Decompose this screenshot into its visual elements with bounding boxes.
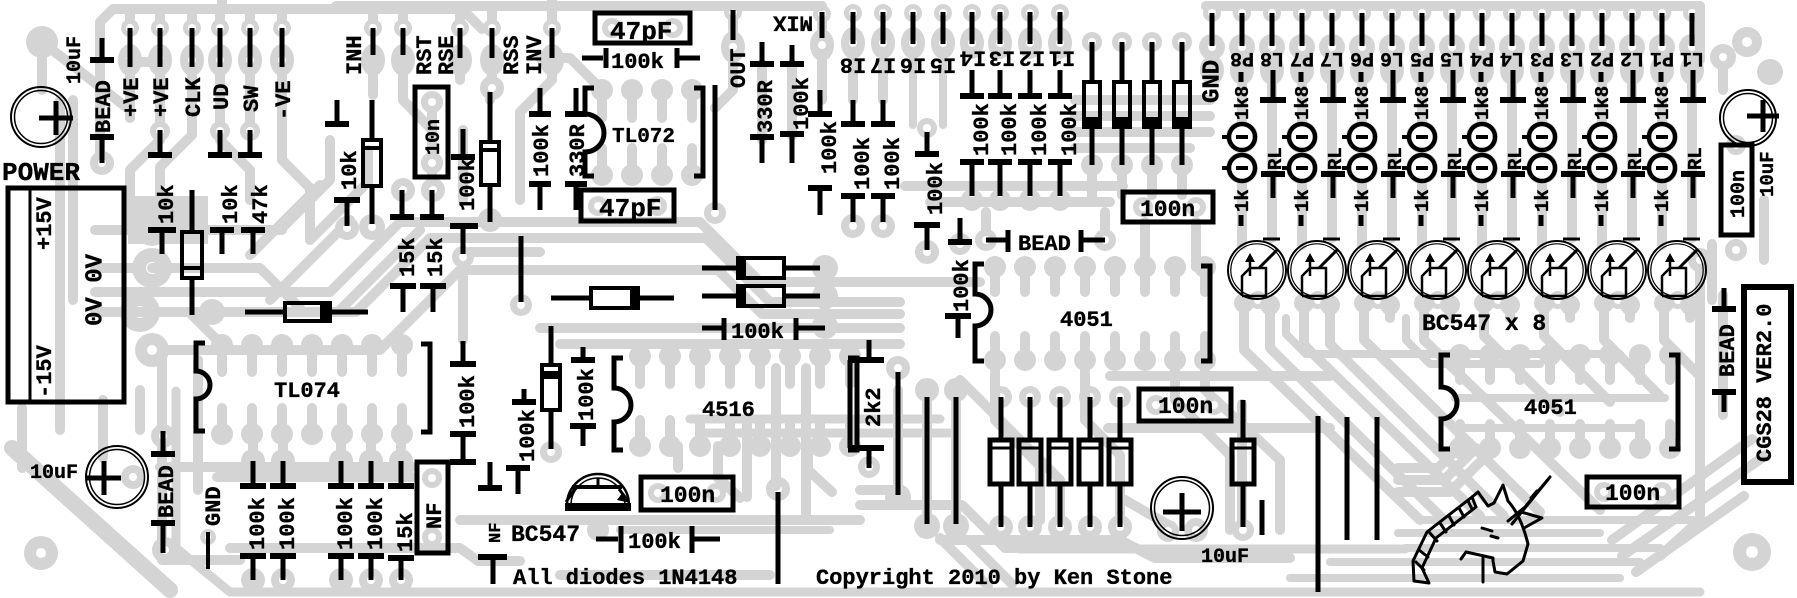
wire tick below 1k ch4	[1479, 215, 1484, 226]
svg-text:1k: 1k	[1232, 189, 1254, 212]
svg-text:BEAD: BEAD	[155, 465, 180, 518]
wire (copper trace)	[540, 323, 900, 333]
wire (copper trace)	[695, 420, 705, 446]
wire (copper trace)	[1604, 318, 1660, 396]
wire (copper trace)	[337, 345, 347, 372]
node pad	[809, 435, 831, 457]
node pad	[1533, 4, 1551, 22]
node pad	[329, 449, 353, 473]
diode D (vertical, center)	[549, 326, 554, 365]
wire (copper trace)	[560, 570, 770, 580]
wire stub x490	[488, 462, 493, 486]
node pad	[1026, 39, 1034, 47]
node pad	[879, 39, 887, 47]
wire (copper trace)	[1050, 267, 1060, 292]
node pad	[1259, 34, 1285, 60]
wire (copper trace)	[1545, 424, 1555, 448]
svg-text:4516: 4516	[702, 398, 755, 423]
svg-text:NF: NF	[487, 523, 506, 543]
svg-text:L6: L6	[1380, 46, 1404, 69]
svg-text:P6: P6	[1350, 46, 1374, 69]
node pad	[148, 44, 172, 76]
node pad	[1134, 349, 1156, 371]
svg-text:TL074: TL074	[274, 379, 340, 404]
svg-text:RSS: RSS	[500, 35, 525, 75]
svg-text:1k8: 1k8	[1232, 86, 1254, 120]
wire (copper trace)	[68, 100, 78, 300]
node pad	[1683, 4, 1701, 22]
node pad	[1164, 349, 1186, 371]
node LED pad B ch7	[1289, 155, 1315, 181]
node pad	[361, 334, 383, 356]
node pad	[915, 378, 939, 402]
node LED pad B ch1	[1649, 155, 1675, 181]
node pad	[1094, 229, 1116, 251]
node pad	[480, 44, 504, 76]
wire (copper trace)	[1539, 303, 1549, 318]
node pad	[359, 449, 383, 473]
wire (copper trace)	[1239, 303, 1249, 318]
wire (copper trace)	[1327, 82, 1337, 97]
wire link x898	[896, 372, 901, 495]
wire (copper trace)	[192, 315, 222, 345]
wire (copper trace)	[1660, 260, 1700, 556]
svg-text:I5: I5	[930, 52, 956, 77]
node pad	[391, 423, 413, 445]
node pad	[1108, 515, 1132, 539]
wire (copper trace)	[98, 400, 108, 458]
node pad	[944, 378, 968, 402]
node pad	[1019, 189, 1041, 211]
node pad	[904, 4, 922, 22]
node pad	[1466, 121, 1498, 153]
wire (copper trace)	[922, 390, 932, 526]
node pad	[719, 435, 741, 457]
node pad	[1593, 4, 1611, 22]
node pad	[448, 44, 472, 76]
svg-text:I7: I7	[870, 52, 896, 77]
wire (copper trace)	[690, 415, 940, 424]
node pad	[1260, 55, 1284, 85]
node pad	[1112, 32, 1132, 52]
wire (copper trace)	[1237, 404, 1247, 524]
wire (copper trace)	[715, 62, 733, 108]
svg-text:CGS28 VER2.0: CGS28 VER2.0	[1753, 304, 1778, 462]
wire (copper trace)	[1665, 424, 1675, 448]
svg-text:L3: L3	[1560, 46, 1584, 69]
node pad	[1383, 4, 1401, 22]
wire (copper trace)	[1664, 318, 1700, 376]
node pad	[1142, 32, 1162, 52]
node pad	[1652, 482, 1672, 502]
node pad	[1048, 515, 1072, 539]
IC U TL074 right bracket	[421, 344, 430, 432]
node pad	[548, 56, 556, 64]
svg-text:UD: UD	[210, 84, 235, 110]
node pad	[968, 39, 976, 47]
svg-text:NF: NF	[423, 503, 448, 529]
wire (copper trace)	[1125, 500, 1172, 527]
wire tick under GND	[206, 532, 210, 569]
node pad	[1018, 27, 1042, 59]
wire (copper trace)	[1117, 165, 1127, 195]
svg-text:15k: 15k	[424, 237, 449, 277]
wire (copper trace)	[130, 118, 160, 230]
node pad	[841, 27, 865, 59]
node pad	[136, 214, 168, 246]
node pad	[211, 19, 229, 37]
node pad	[839, 345, 861, 367]
wire (copper trace)	[687, 90, 697, 118]
wire stub left of 10k	[148, 227, 176, 233]
node pad	[1157, 520, 1179, 542]
wire (copper trace)	[130, 57, 160, 67]
wire stub RL ch3	[1561, 171, 1585, 177]
svg-text:1k: 1k	[1472, 189, 1494, 212]
svg-text:10uF: 10uF	[30, 462, 78, 485]
wire (copper trace)	[487, 6, 497, 28]
node pad	[812, 313, 838, 339]
wire (copper trace)	[1544, 318, 1610, 402]
node pad	[1290, 55, 1314, 85]
node pad	[1319, 34, 1345, 60]
wire (copper trace)	[397, 345, 407, 372]
wire (copper trace)	[1420, 516, 1700, 524]
node pad	[200, 529, 216, 545]
svg-text:1k8: 1k8	[1652, 86, 1674, 120]
svg-text:INV: INV	[523, 35, 548, 75]
svg-text:100k: 100k	[1028, 103, 1053, 156]
diode D3 (1N4148 vertical)	[1150, 42, 1155, 82]
svg-text:I8: I8	[840, 52, 866, 77]
wire (copper trace)	[193, 360, 203, 490]
svg-text:RL: RL	[1685, 147, 1707, 170]
svg-text:L4: L4	[1500, 46, 1524, 69]
svg-text:10uF: 10uF	[1757, 151, 1779, 197]
node pad	[810, 29, 834, 61]
node pad	[1726, 135, 1746, 155]
node pad	[1044, 349, 1066, 371]
wire stub RL ch6	[1381, 171, 1405, 177]
node pad	[1078, 515, 1102, 539]
wire (copper trace)	[787, 64, 797, 136]
node pad	[681, 164, 703, 186]
wire (copper trace)	[1327, 104, 1337, 238]
node pad	[1111, 154, 1133, 176]
node pad	[1503, 4, 1521, 22]
wire (copper trace)	[728, 6, 738, 30]
node pad	[1479, 437, 1501, 459]
node pad	[931, 27, 955, 59]
transistor Q BC547 (top view)	[567, 474, 629, 505]
wire stub RL ch4	[1501, 171, 1525, 177]
node pad	[1323, 4, 1341, 22]
wire (copper trace)	[1290, 574, 1620, 582]
svg-text:INH: INH	[343, 35, 368, 75]
wire (copper trace)	[1270, 318, 1444, 520]
wire (copper trace)	[1505, 305, 1515, 318]
node pad	[422, 527, 442, 547]
node pad	[874, 4, 892, 22]
node LED pad B ch6	[1349, 155, 1375, 181]
node pad	[984, 256, 1006, 278]
svg-text:1k: 1k	[1352, 189, 1374, 212]
wire (copper trace)	[1537, 181, 1547, 245]
node pad	[621, 164, 643, 186]
svg-text:1k8: 1k8	[1472, 86, 1494, 120]
wire (copper trace)	[485, 80, 495, 100]
node pad	[1186, 197, 1206, 217]
label 100k (mid-left)	[461, 129, 466, 154]
resistor 100k (bar style, mid)	[702, 326, 722, 331]
wire (copper trace)	[635, 356, 645, 384]
node pad	[963, 4, 981, 22]
node pad	[996, 39, 1004, 47]
wire (copper trace)	[245, 74, 255, 118]
node pad	[421, 91, 443, 113]
node pad	[1229, 34, 1255, 60]
svg-text:0V 0V: 0V 0V	[83, 253, 110, 326]
wire (copper trace)	[250, 185, 320, 255]
node pad	[1409, 34, 1435, 60]
node pad	[120, 292, 160, 332]
node pad	[1353, 4, 1371, 22]
transistor Q7 BC547	[1288, 241, 1346, 299]
wire (copper trace)	[245, 9, 255, 28]
node pad	[766, 477, 790, 501]
wire (copper trace)	[1707, 244, 1717, 300]
node pad	[648, 483, 668, 503]
connector pin MIX	[820, 12, 825, 38]
node pad	[621, 79, 643, 101]
node pad	[706, 483, 726, 503]
wire (copper trace)	[470, 222, 900, 282]
wire (copper trace)	[665, 356, 675, 384]
wire link x1347	[1345, 417, 1350, 540]
node pad	[812, 283, 838, 309]
resistor 100k column (left of diode)	[522, 389, 527, 400]
node pad	[211, 423, 233, 445]
wire (copper trace)	[909, 59, 917, 125]
svg-text:1k8: 1k8	[1592, 86, 1614, 120]
svg-text:100k: 100k	[334, 497, 359, 550]
svg-text:P7: P7	[1290, 46, 1314, 69]
wire stub column x463	[461, 341, 466, 362]
svg-text:P4: P4	[1470, 46, 1494, 69]
wire tick above 1k8 ch4	[1479, 72, 1484, 82]
wire link x927	[925, 397, 930, 524]
wire (copper trace)	[1200, 336, 1210, 360]
node LED pad A ch7	[1289, 124, 1315, 150]
node pad	[1260, 295, 1280, 315]
node pad	[1589, 34, 1615, 60]
node pad	[1289, 34, 1315, 60]
diode D7 (1N4148 vertical, bottom row)	[1058, 397, 1063, 440]
svg-text:I4: I4	[960, 45, 986, 70]
node pad	[271, 334, 293, 356]
resistor 100k under 47pF	[582, 56, 603, 61]
wire (copper trace)	[1327, 6, 1337, 13]
node pad	[1049, 189, 1071, 211]
wire (copper trace)	[1636, 496, 1744, 572]
node pad	[1732, 27, 1762, 57]
wire (copper trace)	[1147, 165, 1157, 195]
node pad	[1049, 386, 1071, 408]
svg-text:47k: 47k	[249, 184, 274, 224]
wire (copper trace)	[1206, 1, 1700, 11]
svg-text:100n: 100n	[1605, 481, 1660, 507]
wire (copper trace)	[215, 9, 225, 28]
node pad	[422, 468, 442, 488]
node pad	[1466, 152, 1498, 184]
node pad	[271, 568, 295, 592]
wire (copper trace)	[1567, 82, 1577, 97]
node pad	[389, 568, 413, 592]
unicorn logo	[1413, 477, 1550, 583]
wire (copper trace)	[1477, 82, 1487, 124]
wire (copper trace)	[627, 90, 637, 118]
wire (copper trace)	[217, 345, 227, 372]
node pad	[391, 334, 413, 356]
node pad	[90, 151, 114, 175]
wire (copper trace)	[95, 222, 470, 292]
wire (copper trace)	[1447, 104, 1457, 238]
wire (copper trace)	[1398, 448, 1458, 468]
wire tick above 1k8 ch6	[1359, 72, 1364, 82]
node pad	[301, 334, 323, 356]
svg-text:10k: 10k	[338, 150, 363, 190]
node pad	[1109, 386, 1131, 408]
node pad	[1653, 4, 1671, 22]
wire (copper trace)	[125, 74, 135, 118]
wire (copper trace)	[968, 540, 1012, 584]
node pad	[858, 456, 880, 478]
wire (copper trace)	[1075, 95, 1210, 105]
wire (copper trace)	[307, 345, 317, 372]
wire (copper trace)	[1507, 82, 1517, 97]
wire stub x518	[506, 465, 530, 471]
node pad	[132, 248, 172, 288]
wire (copper trace)	[1515, 424, 1525, 448]
node pad	[1649, 34, 1675, 60]
node pad	[909, 39, 917, 47]
svg-text:100k: 100k	[881, 137, 906, 190]
wire (copper trace)	[1387, 82, 1397, 97]
node pad	[1146, 395, 1166, 415]
wire (copper trace)	[1330, 318, 1504, 516]
svg-text:100k: 100k	[456, 375, 481, 428]
wire (copper trace)	[808, 446, 832, 492]
resistor 100k column (right of diode)	[581, 347, 586, 358]
IC U TL074 left bracket	[196, 343, 210, 431]
wire (copper trace)	[1462, 424, 1640, 432]
wire (copper trace)	[1545, 355, 1555, 380]
wire (copper trace)	[470, 247, 540, 257]
wire stub RL ch1	[1681, 171, 1705, 177]
wire (copper trace)	[247, 408, 257, 434]
node pad	[886, 356, 910, 380]
node pad	[246, 56, 254, 64]
node pad	[1470, 55, 1494, 85]
wire (copper trace)	[248, 580, 258, 588]
node pad	[270, 44, 294, 76]
wire (copper trace)	[37, 42, 47, 90]
node pad	[659, 345, 681, 367]
node pad	[1079, 386, 1101, 408]
node pad	[399, 56, 407, 64]
wire (copper trace)	[1537, 6, 1547, 13]
wire (copper trace)	[700, 1, 822, 11]
wire (copper trace)	[187, 9, 197, 28]
node pad	[241, 423, 263, 445]
wire (copper trace)	[1330, 558, 1640, 566]
node pad	[1563, 4, 1581, 22]
wire (copper trace)	[1537, 82, 1547, 124]
transistor Q6 BC547	[1348, 241, 1406, 299]
node pad	[839, 435, 861, 457]
inductor BEAD (bottom left)	[161, 431, 166, 452]
transistor Q3 BC547	[1528, 241, 1586, 299]
node pad	[278, 56, 286, 64]
svg-text:100k: 100k	[364, 497, 389, 550]
resistor 10k (left)	[190, 190, 195, 232]
node pad	[1021, 4, 1039, 22]
node pad	[1560, 55, 1584, 85]
wire (copper trace)	[1477, 6, 1487, 13]
node pad	[1688, 248, 1712, 272]
wire (copper trace)	[245, 118, 255, 130]
svg-text:1k: 1k	[1592, 189, 1614, 212]
node pad	[1082, 32, 1102, 52]
svg-text:L5: L5	[1440, 46, 1464, 69]
wire (copper trace)	[960, 380, 1060, 520]
wire (copper trace)	[162, 350, 240, 560]
node pad	[729, 43, 737, 51]
svg-text:100k: 100k	[998, 103, 1023, 156]
node pad	[241, 334, 263, 356]
node pad	[451, 19, 469, 37]
node pad	[1539, 344, 1561, 366]
diode D (horizontal, left)	[245, 310, 285, 315]
node pad	[989, 515, 1013, 539]
diode D4 (1N4148 vertical)	[1180, 42, 1185, 82]
wire (copper trace)	[1485, 355, 1495, 380]
wire (copper trace)	[1635, 355, 1645, 380]
wire (copper trace)	[368, 60, 378, 95]
wire (copper trace)	[1687, 104, 1697, 238]
wire (copper trace)	[520, 60, 552, 200]
node pad	[1679, 34, 1705, 60]
node pad	[724, 3, 742, 21]
wire (copper trace)	[1100, 212, 1110, 240]
wire (copper trace)	[1406, 318, 1540, 364]
wire (copper trace)	[282, 118, 310, 240]
wire (copper trace)	[657, 148, 667, 175]
node pad	[689, 345, 711, 367]
node pad	[647, 196, 667, 216]
node pad	[359, 568, 383, 592]
node pad	[331, 334, 353, 356]
node pad	[421, 152, 443, 174]
node pad	[421, 91, 443, 113]
node pad	[391, 44, 415, 76]
wire (copper trace)	[939, 59, 947, 125]
board label CGS28 VER2.0 box	[1744, 287, 1791, 482]
wire (copper trace)	[995, 360, 1040, 520]
wire (copper trace)	[220, 118, 250, 200]
node pad	[456, 56, 464, 64]
node pad	[901, 27, 925, 59]
